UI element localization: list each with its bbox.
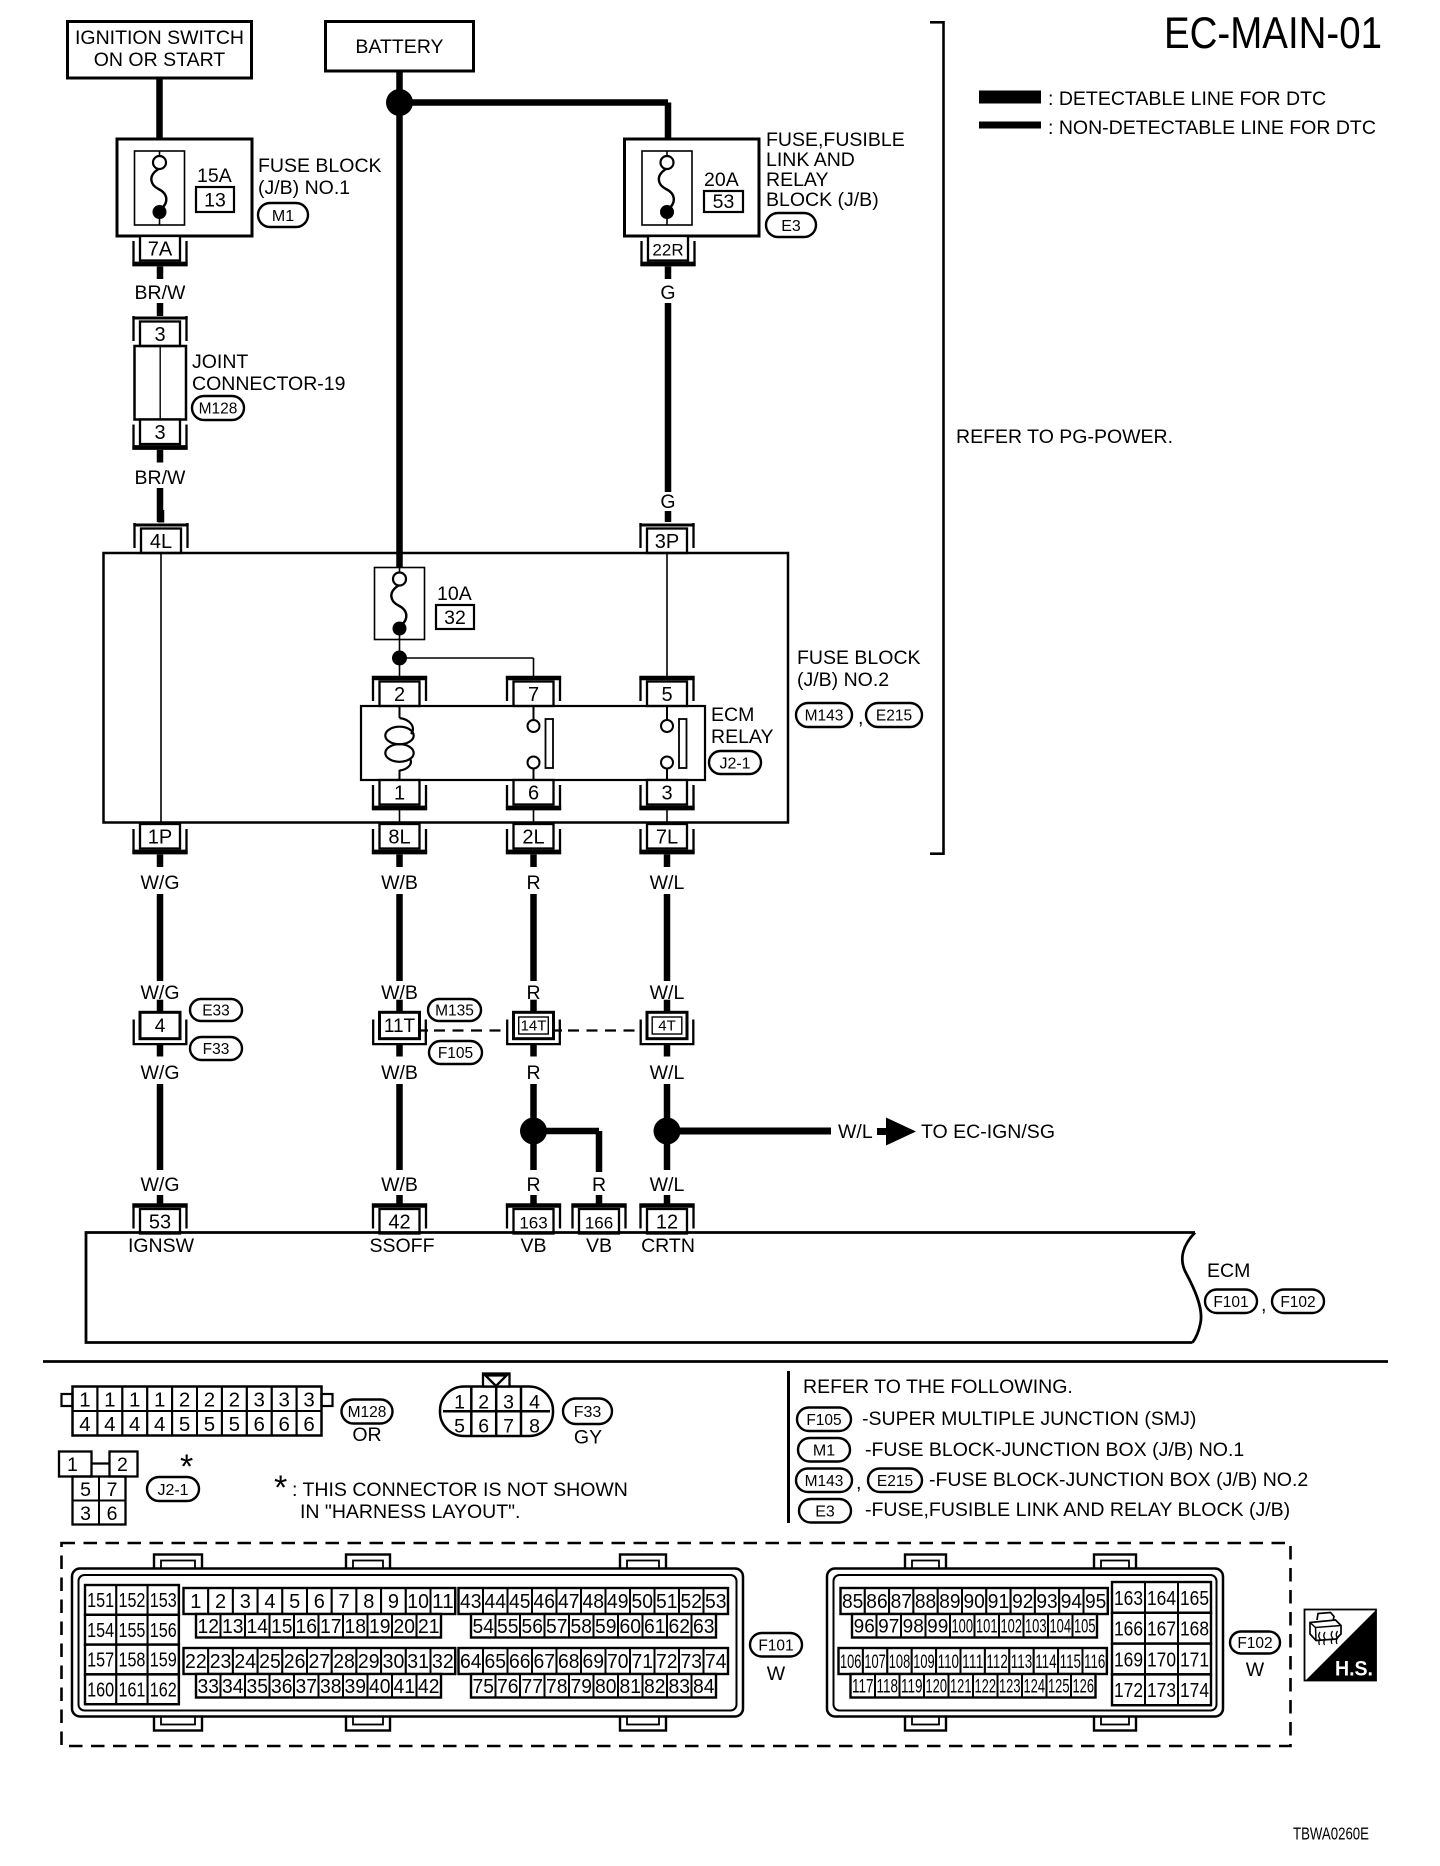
divider bar — [787, 1371, 790, 1523]
connector M1 oval — [798, 1438, 850, 1462]
svg-text:173: 173 — [1147, 1679, 1176, 1702]
svg-text:3: 3 — [278, 1389, 289, 1412]
svg-text:VB: VB — [586, 1235, 612, 1257]
svg-text:66: 66 — [509, 1651, 531, 1673]
label ECM — [1207, 1260, 1250, 1282]
svg-text:1P: 1P — [148, 827, 172, 849]
svg-text:ON OR START: ON OR START — [94, 49, 226, 71]
svg-text:42: 42 — [418, 1676, 440, 1698]
wires relay pins to box edge — [400, 810, 668, 823]
svg-text:W: W — [1246, 1659, 1265, 1681]
svg-text:41: 41 — [394, 1676, 416, 1698]
svg-text:12: 12 — [656, 1212, 678, 1234]
svg-text:113: 113 — [1011, 1652, 1032, 1673]
dashed harness box — [62, 1543, 1291, 1746]
svg-text:77: 77 — [522, 1676, 544, 1698]
svg-text:6: 6 — [278, 1413, 289, 1436]
connector 53 — [132, 1204, 187, 1234]
svg-text:36: 36 — [271, 1676, 293, 1698]
svg-text:BR/W: BR/W — [135, 467, 187, 489]
svg-text:*: * — [274, 1469, 287, 1507]
fuse block J/B no.2 box — [104, 553, 789, 823]
svg-text:51: 51 — [656, 1591, 678, 1613]
connector 166 — [571, 1204, 626, 1234]
label FUSE BLOCK (J/B) NO.2 — [797, 647, 921, 691]
svg-text:R: R — [526, 1062, 540, 1084]
svg-text:118: 118 — [877, 1677, 899, 1698]
label TO EC-IGN/SG — [921, 1121, 1055, 1143]
svg-text:7A: 7A — [148, 239, 173, 261]
wire label R — [526, 872, 540, 894]
svg-text:80: 80 — [595, 1676, 617, 1698]
svg-text:126: 126 — [1073, 1677, 1095, 1698]
svg-text:70: 70 — [607, 1651, 629, 1673]
svg-text:32: 32 — [444, 607, 466, 629]
F102 grid 106-126 — [839, 1648, 1107, 1698]
F101 grid 151-162 — [85, 1585, 179, 1704]
svg-text:3: 3 — [154, 422, 165, 444]
asterisk J2-1 — [180, 1448, 193, 1486]
svg-text:RELAY: RELAY — [766, 169, 829, 191]
connector view J2-1 — [59, 1452, 138, 1526]
label fuse fusible link — [865, 1499, 1290, 1521]
svg-text:M143: M143 — [805, 708, 844, 725]
wire label BR/W — [135, 467, 187, 489]
connector 4T — [641, 1000, 694, 1057]
svg-text:34: 34 — [222, 1676, 244, 1698]
svg-text:20: 20 — [394, 1616, 416, 1638]
doc number TBWA0260E — [1293, 1824, 1369, 1844]
title EC-MAIN-01 — [1164, 9, 1382, 58]
wire battery down to 10A fuse — [396, 71, 403, 568]
svg-text:7: 7 — [503, 1416, 514, 1438]
svg-text:4: 4 — [264, 1591, 275, 1613]
svg-text:22: 22 — [185, 1651, 207, 1673]
svg-text:102: 102 — [1001, 1617, 1023, 1638]
svg-text:165: 165 — [1180, 1587, 1209, 1610]
connector 163 — [506, 1204, 561, 1234]
svg-text:,: , — [856, 1472, 861, 1494]
svg-text:10: 10 — [407, 1591, 429, 1613]
wire label W/G — [141, 982, 180, 1004]
svg-text:103: 103 — [1025, 1617, 1047, 1638]
wire fuse 10A to junction — [399, 640, 401, 678]
wire 7A to joint connector — [157, 303, 164, 316]
connector F33 oval — [563, 1399, 612, 1425]
svg-text:F101: F101 — [758, 1637, 793, 1654]
svg-text:1: 1 — [129, 1389, 140, 1412]
svg-text:27: 27 — [309, 1651, 331, 1673]
svg-text:W/G: W/G — [141, 872, 180, 894]
svg-text:F33: F33 — [203, 1041, 230, 1058]
wire W/G segment — [157, 894, 164, 981]
relay pin 5 — [639, 676, 694, 706]
svg-text:W/B: W/B — [381, 1174, 418, 1196]
wire joint connector to 4L — [157, 488, 164, 522]
pin label VB — [520, 1235, 546, 1257]
connector 8L — [372, 824, 427, 867]
connector J2-1 oval — [709, 751, 761, 774]
note: connector not shown — [274, 1469, 628, 1523]
svg-text:56: 56 — [522, 1616, 544, 1638]
label FUSE BLOCK (J/B) NO.1 — [258, 155, 382, 199]
svg-text:F105: F105 — [806, 1412, 841, 1429]
svg-text:7: 7 — [107, 1479, 118, 1501]
connector M128 oval — [342, 1400, 393, 1424]
ECM box — [86, 1233, 1201, 1343]
svg-text:3: 3 — [503, 1392, 514, 1414]
svg-text:G: G — [660, 282, 675, 304]
F101 grid 22-42 — [184, 1648, 456, 1698]
svg-text:86: 86 — [866, 1591, 887, 1613]
svg-text:45: 45 — [509, 1591, 531, 1613]
connector M128 oval — [192, 396, 244, 420]
svg-text:JOINT: JOINT — [192, 351, 248, 373]
svg-text:1: 1 — [104, 1389, 115, 1412]
svg-text:24: 24 — [234, 1651, 256, 1673]
wire stub to ECM — [157, 1195, 164, 1204]
svg-text:,: , — [858, 707, 863, 729]
svg-text:54: 54 — [473, 1616, 495, 1638]
svg-text:5: 5 — [289, 1591, 300, 1613]
svg-text:72: 72 — [656, 1651, 678, 1673]
svg-text:ECM: ECM — [711, 704, 754, 726]
svg-text:4: 4 — [79, 1413, 90, 1436]
relay coil — [385, 706, 413, 780]
svg-text:62: 62 — [669, 1616, 691, 1638]
relay pin 2 — [372, 676, 427, 706]
wire label W/L — [838, 1121, 873, 1143]
svg-text:E3: E3 — [781, 218, 801, 235]
svg-text:16: 16 — [296, 1616, 318, 1638]
svg-text:100: 100 — [952, 1617, 974, 1638]
svg-text:15: 15 — [271, 1616, 293, 1638]
wire label W/G — [141, 872, 180, 894]
wire junction to relay pin 7 — [400, 658, 534, 677]
svg-text:E33: E33 — [202, 1003, 230, 1020]
svg-text:13: 13 — [222, 1616, 244, 1638]
svg-text:19: 19 — [369, 1616, 391, 1638]
svg-text:101: 101 — [976, 1617, 998, 1638]
svg-text:157: 157 — [87, 1650, 114, 1672]
svg-text:4: 4 — [155, 1016, 166, 1037]
wire label R — [592, 1174, 606, 1196]
svg-text:2: 2 — [117, 1454, 128, 1476]
svg-text:29: 29 — [358, 1651, 380, 1673]
svg-text:4: 4 — [104, 1413, 115, 1436]
svg-text:105: 105 — [1074, 1617, 1096, 1638]
svg-text:90: 90 — [964, 1591, 985, 1613]
svg-text:G: G — [660, 491, 675, 513]
svg-text:50: 50 — [632, 1591, 654, 1613]
svg-text:4L: 4L — [150, 531, 172, 553]
fuse block J/B no.1 box — [117, 139, 252, 236]
svg-text:-FUSE,FUSIBLE LINK AND RELAY B: -FUSE,FUSIBLE LINK AND RELAY BLOCK (J/B) — [865, 1499, 1290, 1521]
svg-text:8L: 8L — [388, 827, 410, 849]
svg-text:W/G: W/G — [141, 1174, 180, 1196]
svg-text:75: 75 — [473, 1676, 495, 1698]
svg-text:53: 53 — [149, 1212, 171, 1234]
svg-text:(J/B) NO.1: (J/B) NO.1 — [258, 177, 350, 199]
svg-text:98: 98 — [903, 1617, 924, 1638]
connector view F33 8-pin — [440, 1374, 553, 1438]
svg-text:W/G: W/G — [141, 1062, 180, 1084]
svg-text:121: 121 — [950, 1677, 972, 1698]
svg-text:116: 116 — [1084, 1652, 1105, 1673]
svg-text:-FUSE BLOCK-JUNCTION BOX (J/B): -FUSE BLOCK-JUNCTION BOX (J/B) NO.1 — [865, 1439, 1244, 1461]
battery box — [326, 22, 474, 72]
fuse 20A (53) — [642, 151, 743, 225]
label REFER TO THE FOLLOWING — [803, 1376, 1073, 1398]
svg-text:5: 5 — [204, 1413, 215, 1436]
svg-text:154: 154 — [87, 1620, 114, 1642]
svg-text:63: 63 — [693, 1616, 715, 1638]
svg-text:64: 64 — [460, 1651, 482, 1673]
wire label W/G — [141, 1062, 180, 1084]
svg-text:3P: 3P — [655, 531, 679, 553]
connector J2-1 oval — [147, 1477, 199, 1501]
wire stub to ECM — [396, 1195, 403, 1204]
svg-text:FUSE BLOCK: FUSE BLOCK — [258, 155, 382, 177]
svg-text:26: 26 — [284, 1651, 306, 1673]
svg-text:CRTN: CRTN — [641, 1235, 695, 1257]
pin label VB — [586, 1235, 612, 1257]
legend non-detectable line — [979, 117, 1376, 139]
connector E3 oval — [799, 1499, 851, 1523]
wire label W/B — [381, 982, 418, 1004]
svg-text:12: 12 — [198, 1616, 220, 1638]
svg-text:BLOCK (J/B): BLOCK (J/B) — [766, 189, 879, 211]
svg-text:159: 159 — [150, 1650, 177, 1672]
svg-text:114: 114 — [1035, 1652, 1057, 1673]
svg-text:46: 46 — [534, 1591, 556, 1613]
relay pin 7 — [506, 676, 561, 706]
svg-text:117: 117 — [852, 1677, 874, 1698]
svg-text:CONNECTOR-19: CONNECTOR-19 — [192, 373, 346, 395]
svg-text:35: 35 — [247, 1676, 269, 1698]
pin label SSOFF — [369, 1235, 434, 1257]
connector F101 oval — [1205, 1290, 1266, 1317]
svg-text:4: 4 — [129, 1413, 140, 1436]
svg-text:153: 153 — [150, 1590, 177, 1612]
svg-text:1: 1 — [154, 1389, 165, 1412]
svg-text:(J/B) NO.2: (J/B) NO.2 — [797, 669, 889, 691]
svg-text:161: 161 — [118, 1680, 145, 1702]
wire 22R to 3P — [665, 303, 672, 492]
svg-text:32: 32 — [432, 1651, 454, 1673]
svg-text:6: 6 — [254, 1413, 265, 1436]
svg-text:40: 40 — [369, 1676, 391, 1698]
svg-text:M1: M1 — [272, 208, 294, 225]
pin label CRTN — [641, 1235, 695, 1257]
svg-text:48: 48 — [583, 1591, 605, 1613]
svg-text:6: 6 — [314, 1591, 325, 1613]
svg-text:76: 76 — [497, 1676, 519, 1698]
svg-text:TO EC-IGN/SG: TO EC-IGN/SG — [921, 1121, 1055, 1143]
svg-text:124: 124 — [1024, 1677, 1046, 1698]
dashed SMJ link 11T-14T — [420, 1029, 507, 1031]
svg-text:5: 5 — [179, 1413, 190, 1436]
connector F33 oval — [190, 1037, 242, 1060]
svg-text:169: 169 — [1114, 1648, 1143, 1671]
arrow TO EC-IGN/SG — [877, 1118, 916, 1146]
svg-text:2: 2 — [179, 1389, 190, 1412]
wire label W/B — [381, 1174, 418, 1196]
relay contact pins 5-3 — [661, 706, 687, 780]
connector M135 oval — [428, 999, 481, 1021]
label SMJ — [862, 1408, 1196, 1430]
svg-text:3: 3 — [80, 1503, 91, 1525]
svg-text:H.S.: H.S. — [1335, 1657, 1373, 1681]
svg-text:57: 57 — [546, 1616, 568, 1638]
relay contact pins 7-6 — [528, 706, 554, 780]
svg-text:1: 1 — [67, 1454, 78, 1476]
svg-text:E3: E3 — [815, 1504, 835, 1521]
connector 4 (E33/F33) — [134, 1000, 187, 1057]
svg-text:8: 8 — [529, 1416, 540, 1438]
svg-text:2L: 2L — [522, 827, 544, 849]
svg-text:160: 160 — [87, 1680, 114, 1702]
label W — [1246, 1659, 1265, 1681]
svg-text:164: 164 — [1147, 1587, 1176, 1610]
svg-text:EC-MAIN-01: EC-MAIN-01 — [1164, 9, 1382, 58]
svg-text:1: 1 — [79, 1389, 90, 1412]
svg-text:W: W — [767, 1663, 786, 1685]
wire battery to fuse/relay block E3 — [400, 103, 669, 140]
wire stub to ECM — [530, 1195, 537, 1204]
junction node battery — [386, 89, 413, 116]
svg-text:15A: 15A — [197, 165, 232, 187]
svg-text:M143: M143 — [805, 1473, 844, 1490]
svg-text:E215: E215 — [876, 708, 912, 725]
fuse 10A (32) — [375, 568, 475, 640]
svg-text:53: 53 — [705, 1591, 727, 1613]
svg-text:W/L: W/L — [650, 1174, 685, 1196]
svg-text:97: 97 — [878, 1617, 899, 1638]
svg-text:88: 88 — [915, 1591, 936, 1613]
svg-text:8: 8 — [363, 1591, 374, 1613]
svg-text:REFER TO THE FOLLOWING.: REFER TO THE FOLLOWING. — [803, 1376, 1073, 1398]
connector view M128 20-pin — [62, 1387, 333, 1437]
F101 grid 43-63 — [459, 1588, 729, 1638]
svg-text:82: 82 — [644, 1676, 666, 1698]
svg-text:168: 168 — [1180, 1618, 1209, 1641]
svg-text:W/B: W/B — [381, 1062, 418, 1084]
svg-text:44: 44 — [485, 1591, 507, 1613]
svg-text:14T: 14T — [521, 1018, 547, 1035]
svg-text:3: 3 — [240, 1591, 251, 1613]
svg-text:21: 21 — [418, 1616, 440, 1638]
svg-text:BR/W: BR/W — [135, 282, 187, 304]
svg-text:9: 9 — [388, 1591, 399, 1613]
svg-text:110: 110 — [938, 1652, 959, 1673]
svg-text:108: 108 — [889, 1652, 910, 1673]
wire label W/G — [141, 1174, 180, 1196]
dashed SMJ link 14T-4T — [554, 1029, 641, 1031]
F102 grid 163-174 — [1112, 1582, 1211, 1705]
svg-text:R: R — [526, 872, 540, 894]
svg-text:30: 30 — [383, 1651, 405, 1673]
svg-text:69: 69 — [583, 1651, 605, 1673]
svg-text:5: 5 — [661, 684, 672, 706]
svg-text:7L: 7L — [656, 827, 678, 849]
svg-text:38: 38 — [320, 1676, 342, 1698]
svg-text:4T: 4T — [658, 1018, 676, 1035]
svg-text:IGNITION SWITCH: IGNITION SWITCH — [75, 27, 244, 49]
ignition switch box — [68, 22, 252, 79]
wire to EC-IGN/SG — [667, 1128, 831, 1135]
svg-text:107: 107 — [864, 1652, 885, 1673]
wire ignition switch to fuse block — [156, 78, 163, 139]
svg-text:94: 94 — [1061, 1591, 1082, 1613]
svg-text:67: 67 — [534, 1651, 556, 1673]
connector F102 oval — [1230, 1632, 1280, 1654]
svg-text:158: 158 — [118, 1650, 145, 1672]
wire stub to ECM — [664, 1195, 671, 1204]
svg-text:6: 6 — [478, 1416, 489, 1438]
svg-text:W/L: W/L — [650, 1062, 685, 1084]
svg-text:11T: 11T — [384, 1016, 416, 1037]
svg-text:99: 99 — [927, 1617, 948, 1638]
connector 12 — [639, 1204, 694, 1234]
svg-text:4: 4 — [529, 1392, 540, 1414]
svg-text:112: 112 — [986, 1652, 1007, 1673]
svg-text:166: 166 — [1114, 1618, 1143, 1641]
svg-text:6: 6 — [528, 783, 539, 805]
svg-text:14: 14 — [247, 1616, 269, 1638]
wire label R — [526, 982, 540, 1004]
svg-text:43: 43 — [460, 1591, 482, 1613]
svg-text:166: 166 — [585, 1214, 613, 1233]
svg-text:81: 81 — [620, 1676, 642, 1698]
svg-text:83: 83 — [669, 1676, 691, 1698]
svg-text:22R: 22R — [652, 241, 683, 260]
svg-text:IGNSW: IGNSW — [128, 1235, 195, 1257]
legend detectable line — [979, 88, 1326, 110]
wire W/L segment to junction — [664, 1084, 671, 1170]
svg-text:3: 3 — [661, 783, 672, 805]
wire label G — [660, 282, 675, 304]
connector 42 — [372, 1204, 427, 1234]
svg-text:M128: M128 — [348, 1404, 387, 1421]
joint connector-19 bottom pin 3 — [132, 420, 187, 463]
svg-text:74: 74 — [705, 1651, 727, 1673]
svg-text:162: 162 — [150, 1680, 177, 1702]
joint connector-19 top pin 3 — [132, 316, 187, 346]
svg-text:: NON-DETECTABLE LINE FOR DTC: : NON-DETECTABLE LINE FOR DTC — [1048, 117, 1376, 139]
svg-text:RELAY: RELAY — [711, 726, 774, 748]
svg-text:23: 23 — [210, 1651, 232, 1673]
svg-text:SSOFF: SSOFF — [369, 1235, 434, 1257]
svg-text:5: 5 — [229, 1413, 240, 1436]
svg-text:: THIS CONNECTOR IS NOT SHOWN: : THIS CONNECTOR IS NOT SHOWN — [292, 1479, 628, 1501]
svg-text:FUSE,FUSIBLE: FUSE,FUSIBLE — [766, 129, 905, 151]
svg-text:ECM: ECM — [1207, 1260, 1250, 1282]
svg-text:33: 33 — [198, 1676, 220, 1698]
svg-text:7: 7 — [528, 684, 539, 706]
svg-text:M128: M128 — [199, 401, 238, 418]
connector F101 oval — [750, 1633, 802, 1657]
svg-text:2: 2 — [215, 1591, 226, 1613]
F102 grid 85-105 — [841, 1588, 1108, 1638]
wire label W/L — [650, 982, 685, 1004]
junction node VB — [520, 1118, 547, 1145]
connector 7L — [639, 824, 694, 867]
fuse,fusible link and relay block E3 box — [625, 139, 760, 236]
svg-text:7: 7 — [338, 1591, 349, 1613]
connector 11T (M135/F105) — [373, 1000, 426, 1057]
svg-text:BATTERY: BATTERY — [355, 36, 443, 58]
